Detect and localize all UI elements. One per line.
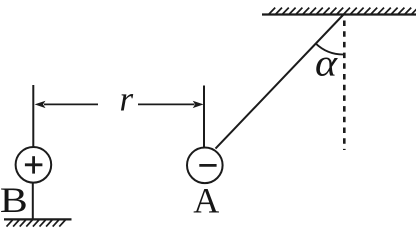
svg-text:B: B: [0, 181, 28, 221]
svg-text:A: A: [193, 181, 219, 221]
svg-text:r: r: [119, 80, 133, 119]
svg-text:α: α: [315, 41, 338, 84]
